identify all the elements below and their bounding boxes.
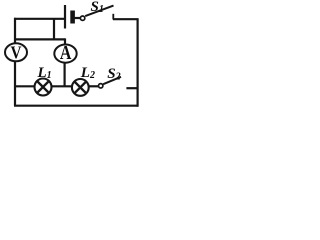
svg-text:A: A	[60, 42, 72, 64]
svg-text:V: V	[11, 42, 22, 62]
